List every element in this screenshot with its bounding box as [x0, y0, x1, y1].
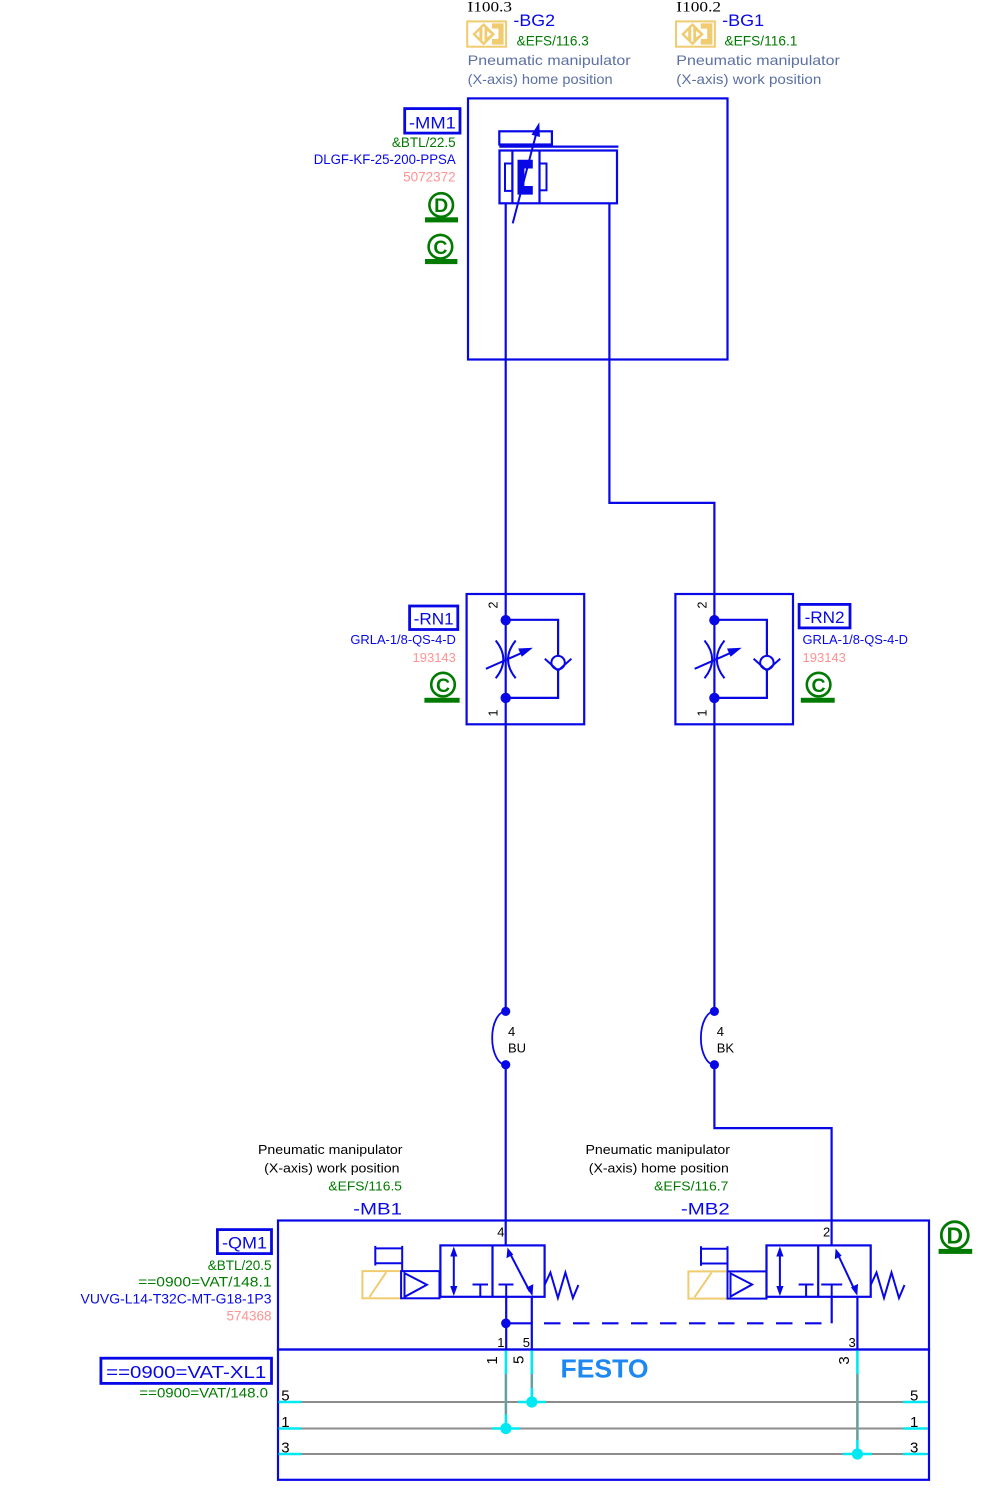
cylinder -MM1 slide [499, 131, 618, 146]
svg-text:&EFS/116.3: &EFS/116.3 [517, 33, 589, 48]
svg-text:5: 5 [281, 1387, 289, 1404]
svg-text:(X-axis) home position: (X-axis) home position [589, 1162, 729, 1176]
-QM1 tag box [217, 1230, 271, 1254]
sensor -BG1 icon [676, 21, 715, 46]
RN2 node dot bottom [709, 693, 719, 703]
svg-text:(X-axis) work position: (X-axis) work position [264, 1162, 399, 1176]
svg-text:3: 3 [848, 1335, 855, 1350]
valve terminal -QM1 box [278, 1221, 929, 1350]
svg-text:2: 2 [823, 1225, 830, 1240]
svg-text:Pneumatic manipulator: Pneumatic manipulator [676, 52, 840, 68]
svg-text:D: D [434, 195, 448, 217]
MB1 port 5 wire to terminal [531, 1297, 533, 1350]
-RN1 tag box [410, 606, 458, 630]
svg-text:1: 1 [281, 1414, 289, 1431]
svg-text:-MB2: -MB2 [681, 1200, 730, 1219]
svg-text:BU: BU [508, 1040, 526, 1055]
RN1 node dot top [501, 615, 511, 625]
svg-text:&EFS/116.7: &EFS/116.7 [654, 1179, 728, 1194]
RN1 adjustment arrow [486, 648, 533, 669]
svg-text:(X-axis) work position: (X-axis) work position [676, 71, 821, 87]
svg-text:-RN2: -RN2 [805, 609, 845, 627]
solenoid valve -MB2 [688, 1245, 904, 1298]
symbol C (RN2) [801, 673, 835, 703]
MB1 valve body [440, 1245, 544, 1296]
svg-text:D: D [946, 1223, 963, 1249]
symbol D (MM1) [425, 193, 458, 222]
svg-text:==0900=VAT-XL1: ==0900=VAT-XL1 [106, 1362, 266, 1382]
terminal rail 1 [279, 1414, 928, 1431]
MB2 return spring [871, 1273, 905, 1299]
svg-text:5: 5 [910, 1387, 918, 1404]
flow control valve -RN2 box [675, 594, 793, 724]
RN2 check valve branch wire [714, 620, 767, 656]
solenoid valve -MB1 [362, 1245, 578, 1298]
RN2 check valve [754, 656, 781, 671]
wire RN2 to connector BK [713, 724, 715, 1011]
svg-text:BK: BK [717, 1040, 735, 1055]
MB1 return spring [545, 1273, 579, 1299]
svg-text:4: 4 [497, 1225, 504, 1240]
MB1 solenoid coil [362, 1271, 401, 1298]
svg-text:&EFS/116.5: &EFS/116.5 [328, 1179, 402, 1194]
RN1 check valve [545, 656, 572, 671]
wire RN1 to connector BU [505, 724, 507, 1011]
RN1 node dot bottom [501, 693, 511, 703]
cylinder -MM1 stroke arrow [513, 122, 540, 223]
svg-text:&BTL/20.5: &BTL/20.5 [208, 1258, 272, 1273]
svg-text:Pneumatic manipulator: Pneumatic manipulator [258, 1143, 403, 1157]
RN2 adjustment arrow [695, 648, 742, 669]
wire from MM1 port A down to RN1 [505, 203, 507, 594]
pilot control line solid segment [506, 1322, 533, 1324]
cylinder -MM1 enclosure box [468, 98, 728, 359]
svg-text:GRLA-1/8-QS-4-D: GRLA-1/8-QS-4-D [803, 633, 909, 647]
RN2 throttle arcs [705, 641, 725, 679]
svg-text:I100.2: I100.2 [676, 0, 721, 16]
svg-text:1: 1 [695, 709, 709, 716]
terminal strip -XL1 box [278, 1350, 929, 1480]
svg-text:-BG1: -BG1 [722, 11, 764, 30]
svg-text:2: 2 [695, 601, 709, 608]
wire connector BU to valve -MB1 port 4 [505, 1065, 507, 1246]
svg-text:VUVG-L14-T32C-MT-G18-1P3: VUVG-L14-T32C-MT-G18-1P3 [81, 1291, 272, 1306]
cylinder -MM1 body [500, 151, 618, 204]
svg-text:Pneumatic manipulator: Pneumatic manipulator [468, 52, 631, 68]
svg-text:(X-axis) home position: (X-axis) home position [468, 71, 613, 87]
svg-text:==0900=VAT/148.0: ==0900=VAT/148.0 [139, 1386, 268, 1401]
hose connector 4 BU [492, 1007, 526, 1069]
-RN2 tag box [799, 604, 850, 628]
MB1 right square flow arrow (4 to 5) [507, 1248, 534, 1297]
svg-text:193143: 193143 [803, 650, 846, 665]
MB2 port 3 wire to terminal [856, 1297, 858, 1350]
pilot junction dot [501, 1319, 511, 1329]
svg-text:3: 3 [281, 1439, 289, 1456]
MB1 manual override [375, 1246, 402, 1271]
-XL1 tag box [101, 1358, 272, 1383]
RN2 node dot top [709, 615, 719, 625]
svg-text:574368: 574368 [226, 1308, 271, 1323]
MB1 left square blocked port [473, 1285, 489, 1297]
svg-text:-MM1: -MM1 [409, 113, 456, 132]
svg-text:2: 2 [487, 601, 501, 608]
svg-text:3: 3 [910, 1439, 918, 1456]
symbol C (RN1) [424, 673, 459, 703]
RN2 wire through [713, 594, 715, 724]
svg-text:4: 4 [717, 1024, 724, 1039]
MB2 right square blocked pilot port [821, 1285, 842, 1297]
svg-text:C: C [812, 675, 826, 697]
cylinder -MM1 piston (filled) [518, 160, 533, 195]
RN1 check valve branch wire [506, 620, 558, 656]
pilot control line dashed [544, 1322, 832, 1324]
MB1 left square flow arrow [450, 1247, 457, 1297]
svg-text:-BG2: -BG2 [513, 11, 555, 30]
MB1 right square blocked port 1 [499, 1285, 514, 1297]
hose connector 4 BK [701, 1007, 734, 1069]
svg-text:==0900=VAT/148.1: ==0900=VAT/148.1 [138, 1275, 271, 1290]
svg-text:-RN1: -RN1 [414, 611, 454, 629]
sensor -BG2 address I100.3 [468, 0, 513, 16]
MB1 port 1 wire to terminal [505, 1297, 507, 1350]
svg-text:&BTL/22.5: &BTL/22.5 [392, 135, 456, 150]
cylinder -MM1 tag box [405, 109, 460, 134]
svg-text:1: 1 [484, 1356, 501, 1364]
terminal wire port5 to rail 5 [526, 1351, 537, 1408]
svg-text:C: C [436, 675, 450, 697]
svg-text:1: 1 [487, 709, 501, 716]
MB2 solenoid coil [688, 1271, 727, 1298]
MB1 pilot [401, 1271, 439, 1298]
svg-text:I100.3: I100.3 [468, 0, 513, 16]
svg-text:C: C [433, 237, 447, 259]
MB2 right square flow arrow (2 to 3) [835, 1249, 858, 1296]
RN1 wire through [505, 594, 507, 724]
svg-text:-QM1: -QM1 [222, 1234, 267, 1253]
svg-text:1: 1 [497, 1335, 504, 1350]
wire from MM1 port B with jog to RN2 [609, 203, 714, 594]
MB2 left square flow arrow [776, 1247, 783, 1297]
terminal rail 3 [279, 1439, 928, 1456]
symbol D (QM1) [939, 1222, 973, 1254]
MB2 valve body [767, 1245, 871, 1296]
terminal rail 5 [279, 1387, 928, 1404]
MB2 left square blocked port [799, 1285, 814, 1297]
MB2 pilot [728, 1271, 767, 1298]
symbol C (MM1) [425, 235, 457, 264]
svg-text:5: 5 [511, 1356, 528, 1364]
sensor -BG2 icon [467, 21, 506, 46]
svg-text:193143: 193143 [413, 650, 456, 665]
RN1 throttle arcs [496, 641, 516, 679]
svg-text:4: 4 [508, 1024, 515, 1039]
svg-text:Pneumatic manipulator: Pneumatic manipulator [586, 1143, 731, 1157]
svg-text:5: 5 [523, 1335, 530, 1350]
svg-text:5072372: 5072372 [403, 169, 456, 184]
terminal wire port3 to rail 3 [852, 1351, 863, 1460]
terminal wire port1 to rail 1 [500, 1351, 511, 1435]
svg-text:DLGF-KF-25-200-PPSA: DLGF-KF-25-200-PPSA [314, 152, 456, 167]
MB2 pilot wire [831, 1297, 833, 1324]
MB2 manual override [701, 1246, 728, 1271]
svg-text:GRLA-1/8-QS-4-D: GRLA-1/8-QS-4-D [350, 633, 456, 647]
svg-text:3: 3 [836, 1356, 853, 1364]
svg-text:-MB1: -MB1 [353, 1200, 402, 1219]
wire connector BK with jog to valve -MB2 port 2 [714, 1065, 831, 1246]
svg-text:&EFS/116.1: &EFS/116.1 [725, 33, 798, 48]
svg-text:FESTO: FESTO [561, 1356, 649, 1384]
svg-text:1: 1 [910, 1414, 918, 1431]
flow control valve -RN1 box [467, 594, 585, 724]
